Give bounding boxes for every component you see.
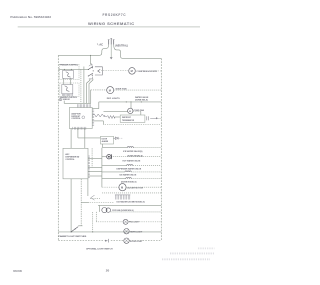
- door switch lower frame: [89, 77, 93, 79]
- wire fill valve to right bus dotted: [113, 156, 162, 158]
- AC plug P1: [108, 40, 110, 45]
- board bottom pin comb: [73, 127, 86, 130]
- node B: [71, 69, 72, 70]
- wire heater to terminator: [115, 116, 120, 118]
- board top pin comb: [78, 104, 91, 107]
- wire alarm to valve row: [102, 144, 104, 148]
- ice maker connector comb: [115, 194, 130, 196]
- freezer light row dashed: [96, 221, 123, 223]
- wire to auger motor dotted: [102, 186, 119, 188]
- valve coil L4: [126, 177, 132, 180]
- capacitor marks: [146, 116, 148, 120]
- wire compressor to right bus dotted: [152, 70, 162, 72]
- cond fan motor M3: [128, 108, 133, 113]
- board relay circle: [82, 116, 85, 119]
- wire to ice maker harness: [87, 179, 89, 196]
- cold control thermostat box: [63, 71, 74, 79]
- node A: [64, 69, 65, 70]
- defrost terminator box: [120, 115, 145, 122]
- harness dashed wires: [90, 198, 100, 200]
- node E: [141, 101, 142, 102]
- damper heater comb: [62, 94, 72, 96]
- evap fan motor M2: [107, 87, 114, 94]
- cold control contact curve: [66, 72, 71, 77]
- damper contact curve: [65, 86, 70, 92]
- wire board to dispenser board left: [70, 129, 72, 149]
- bottom cabinet dashed wire: [58, 240, 104, 242]
- freezer control dashed enclosure: [60, 64, 80, 79]
- wire neutral from plug to right bus: [114, 45, 162, 59]
- wire L2 to right bus dotted: [133, 165, 161, 167]
- bottom return wire: [58, 231, 161, 233]
- wire bundle dashed: [80, 69, 82, 103]
- dispenser bottom wire b: [80, 179, 82, 226]
- damper control dashed enclosure: [60, 83, 79, 97]
- wire cond fan corner to defrost box: [133, 110, 141, 112]
- label AC tick: [97, 43, 98, 45]
- wire bundle solid: [83, 67, 85, 104]
- wire drop evap row to board: [90, 90, 92, 103]
- wire freezer light to right bus dashed: [128, 221, 161, 223]
- auger motor M4: [119, 184, 126, 191]
- svg-text:WIRING SCHEMATIC: WIRING SCHEMATIC: [88, 21, 135, 26]
- compressor motor M1: [129, 68, 136, 75]
- dispenser valve row wire: [102, 171, 125, 173]
- wire L4 to right bus dotted: [131, 178, 161, 180]
- wire drop to cond fan: [130, 102, 132, 108]
- damper thermostat box: [62, 85, 73, 94]
- right bus wire: [160, 58, 162, 240]
- svg-text:FREEZER CONTROL: FREEZER CONTROL: [60, 65, 79, 67]
- wire line L hot from plug to left bus: [58, 45, 108, 56]
- svg-text:66/08: 66/08: [13, 269, 22, 273]
- wire vertical right of board: [91, 148, 93, 167]
- svg-text:COMPRESSOR MTR: COMPRESSOR MTR: [136, 71, 157, 73]
- svg-text:(SOME MDLS): (SOME MDLS): [135, 99, 148, 101]
- wire drop to freezer fan: [99, 205, 101, 212]
- door switch upper frame: [89, 64, 92, 66]
- wire auger to right bus dotted: [126, 186, 161, 188]
- freezer fan motor M5: [102, 208, 107, 213]
- wire L3 to right bus dotted: [131, 171, 161, 173]
- svg-text:DEF. LIGHTS: DEF. LIGHTS: [107, 98, 120, 100]
- board right pin comb: [92, 110, 94, 126]
- wire row y205: [98, 204, 161, 206]
- heater return wire: [92, 120, 103, 122]
- door light LP3: [124, 238, 129, 243]
- wire freezer fan to right bus dotted: [111, 211, 162, 213]
- wire drop to door switches: [90, 55, 92, 64]
- water fill valve solenoid: [107, 155, 111, 159]
- door alarm box: [101, 136, 114, 144]
- svg-text:CONTROL: CONTROL: [65, 159, 75, 161]
- defrost heater zigzag: [92, 114, 104, 117]
- control board U1: [69, 108, 92, 129]
- svg-text:REFR LIGHT: REFR LIGHT: [130, 231, 143, 233]
- wire to compressor dotted: [101, 70, 128, 72]
- wire cluster to bundle b: [89, 79, 93, 104]
- svg-text:M: M: [129, 111, 131, 113]
- switch arm wire: [78, 225, 82, 227]
- node junction bottom: [92, 231, 93, 232]
- freezer light LP1: [123, 219, 128, 224]
- wire board to alarm box: [77, 129, 79, 138]
- fill valve row wire: [102, 156, 106, 158]
- thermistor sensor: [59, 98, 62, 101]
- svg-text:DISPENSER BD: DISPENSER BD: [65, 157, 79, 159]
- door switch block bracket: [95, 67, 102, 75]
- svg-text:SENSOR: SENSOR: [63, 99, 71, 101]
- wire drop to freezer light: [95, 212, 97, 222]
- ice water valve row wire: [103, 147, 128, 149]
- svg-text:20: 20: [106, 269, 110, 273]
- wire to evap fan dotted: [91, 89, 107, 91]
- svg-text:DOOR: DOOR: [102, 139, 108, 141]
- svg-text:DEFROST: DEFROST: [122, 117, 132, 119]
- valve coil L3: [125, 170, 131, 173]
- wire supply feed from board: [98, 102, 100, 109]
- node C: [126, 101, 127, 102]
- svg-text:DOOR LIGHT: DOOR LIGHT: [130, 241, 143, 243]
- dispenser control board U2: [63, 148, 88, 179]
- harness chevron: [91, 195, 95, 200]
- wire sensor to board collector: [63, 101, 65, 104]
- dispenser bottom wire a: [70, 179, 72, 232]
- svg-text:(SOME MODELS): (SOME MODELS): [121, 182, 137, 184]
- svg-text:FRS26KF7C: FRS26KF7C: [103, 13, 127, 17]
- left bus wire: [57, 55, 59, 240]
- wire tstat to damper right: [70, 78, 72, 84]
- wire tstat to damper left: [63, 78, 65, 84]
- dispenser board wires right: [88, 158, 102, 160]
- hot water valve row wire: [102, 165, 127, 167]
- wire coil to right bus dotted: [133, 147, 161, 149]
- footer fine print: [198, 247, 215, 249]
- dispenser board right pin comb: [88, 156, 90, 178]
- diode D1: [114, 137, 116, 139]
- svg-text:CONTROL: CONTROL: [71, 118, 81, 120]
- ground arrow: [110, 57, 113, 59]
- row wire to freezer control: [58, 68, 88, 70]
- ground wire: [110, 45, 112, 58]
- bottom border tick and arrow: [108, 239, 110, 243]
- door switch blade upper: [88, 66, 93, 69]
- wire cluster to bundle a: [87, 79, 90, 104]
- wire row to cond fan: [104, 110, 128, 112]
- left feed bus for valve rows: [101, 148, 103, 188]
- wire board to dispenser board right: [84, 129, 86, 149]
- node D: [130, 101, 131, 102]
- door switch blade lower: [88, 73, 93, 76]
- svg-text:DEFROST: DEFROST: [71, 116, 81, 118]
- arrow to right bus: [150, 117, 156, 119]
- svg-text:Publication No. 5995424943: Publication No. 5995424943: [10, 15, 51, 19]
- harness stub wire: [81, 201, 88, 203]
- svg-text:(SOME MODELS): (SOME MODELS): [127, 156, 143, 158]
- wire evap fan to right bus dotted: [114, 89, 162, 91]
- refrigerator light LP2: [124, 229, 129, 234]
- switch block arrow contact: [98, 69, 101, 72]
- wire drop dashed to bottom: [92, 212, 94, 232]
- ice valve row wire: [102, 178, 126, 180]
- cabinet light switch blade: [71, 227, 78, 232]
- valve coil L1: [127, 147, 133, 148]
- supply wire row: [99, 101, 162, 103]
- auger return dotted wire: [102, 192, 161, 194]
- valve coil L2: [127, 164, 133, 167]
- node junction on hot wire: [90, 55, 91, 56]
